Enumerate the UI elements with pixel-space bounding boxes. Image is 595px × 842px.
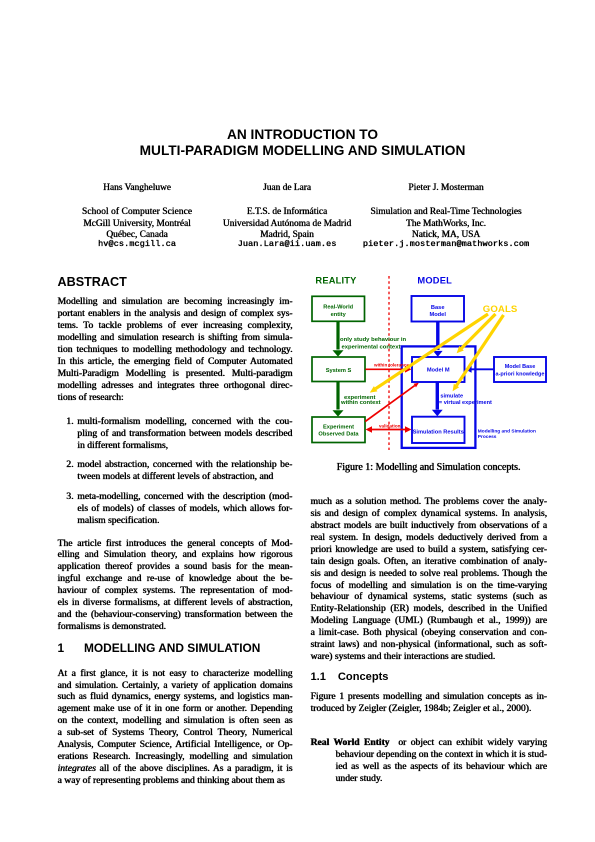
FIGURE: Modelling and Simulation concepts diagram [300, 270, 562, 462]
list items [66, 416, 292, 452]
wire red arrow System S to Model M (within tolerance) [366, 366, 412, 373]
box Base Model [412, 296, 465, 322]
paragraph: much as [311, 496, 548, 663]
wire red arrow Experiment Observed Data to Model M (modelling) [365, 383, 419, 422]
wire green arrow System S to Experiment [333, 382, 344, 417]
wire yellow arrow GOALS to experiment label [370, 314, 488, 393]
svg-text:simulate: simulate [440, 394, 463, 400]
svg-text:Modelling and Simulation: Modelling and Simulation [478, 429, 536, 435]
author 1 [47, 183, 227, 254]
title [5, 127, 595, 159]
svg-text:Real-World: Real-World [323, 305, 353, 311]
ABSTRACT heading [58, 275, 127, 289]
svg-text:Model: Model [429, 312, 446, 318]
svg-text:experimental context: experimental context [342, 344, 401, 350]
node MODEL label [417, 276, 452, 286]
wire red double arrow validation between Experiment Observed Data and Simulation Results [366, 426, 412, 433]
wire blue arrow Model M to Simulation Results (simulate) [432, 382, 443, 416]
svg-text:within tolerance: within tolerance [373, 363, 409, 368]
figure caption [310, 462, 547, 473]
label Modelling and Simulation Process [478, 429, 536, 440]
node REALITY label [315, 276, 357, 286]
node GOALS label [483, 304, 518, 315]
svg-text:GOALS: GOALS [483, 304, 518, 315]
box Experiment Observed Data [312, 417, 365, 443]
paragraph: the article first [58, 538, 293, 633]
box System S [312, 357, 365, 382]
wire blue arrow Base Model to Model M [433, 322, 443, 357]
definition: real world entity [311, 737, 548, 785]
heading 1.1 [311, 671, 389, 683]
svg-text:within context: within context [340, 400, 381, 406]
svg-text:validation: validation [379, 424, 401, 429]
wire green arrow Real-World entity to System S [333, 321, 344, 356]
svg-text:Observed Data: Observed Data [318, 432, 359, 438]
box Simulation Results [412, 417, 465, 443]
svg-text:Process: Process [478, 434, 497, 440]
svg-text:a-priori knowledge: a-priori knowledge [496, 372, 545, 378]
label simulate = virtual experiment [439, 394, 492, 406]
abstract paragraph [58, 296, 293, 403]
author 3 [356, 183, 536, 254]
svg-text:Simulation Results: Simulation Results [413, 429, 464, 435]
svg-text:System S: System S [326, 368, 352, 374]
svg-text:MODEL: MODEL [417, 276, 452, 286]
heading 1 [58, 641, 261, 655]
box Model M [412, 357, 465, 382]
wire blue arrow Model Base to Model M [465, 366, 494, 373]
label validation [379, 424, 401, 429]
label experiment within context [340, 395, 381, 406]
svg-text:Base: Base [431, 305, 445, 311]
wire yellow arrow GOALS to simulate label [453, 315, 504, 391]
svg-text:only study behaviour in: only study behaviour in [340, 337, 407, 343]
author 2 [197, 183, 377, 254]
wire reality/model red dashed separator [388, 276, 390, 450]
wire yellow arrow GOALS to Model M [457, 314, 496, 353]
svg-text:Model Base: Model Base [505, 364, 536, 370]
box Model Base a-priori knowledge [494, 357, 546, 382]
paragraph: figure 1 presents [311, 691, 548, 715]
svg-text:= virtual experiment: = virtual experiment [439, 400, 492, 406]
svg-text:Model M: Model M [427, 367, 450, 373]
label within tolerance [373, 363, 409, 368]
label only study behaviour in experimental context [340, 337, 407, 350]
box Real-World entity [312, 296, 365, 321]
svg-text:REALITY: REALITY [315, 276, 357, 286]
paragraph: at a first glance [58, 668, 293, 787]
svg-text:entity: entity [331, 312, 347, 318]
box Modelling and Simulation Process (outer) [402, 346, 476, 448]
svg-text:Experiment: Experiment [323, 424, 354, 430]
